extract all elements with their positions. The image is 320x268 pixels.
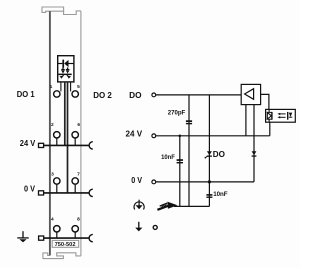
24V rail on module [39, 142, 93, 149]
svg-text:10nF: 10nF [161, 154, 175, 161]
terminal 24V [152, 134, 156, 138]
LED arrows [61, 75, 63, 77]
capacitor 10nF upper [177, 159, 183, 163]
LED DO [207, 151, 212, 157]
top latch bar [42, 7, 64, 12]
svg-text:750-502: 750-502 [55, 242, 76, 248]
branch DO to earth with 270pF [188, 95, 190, 206]
svg-text:24 V: 24 V [20, 139, 36, 148]
thick wire to 0V rail [67, 82, 69, 193]
functional earth circle symbol [134, 200, 144, 210]
earth symbol left of module rail [17, 231, 28, 238]
contact 6 with stub [74, 138, 76, 145]
capacitor 10nF lower [206, 194, 212, 198]
earth rail on module [39, 234, 93, 241]
svg-text:8: 8 [77, 217, 80, 223]
opto light arrows [280, 114, 286, 117]
contact 3 with stub [56, 184, 58, 193]
opto pin to 24V rail [269, 122, 271, 136]
svg-text:10nF: 10nF [213, 191, 228, 198]
module outline group [42, 7, 81, 259]
driver pin via diode to 0V [253, 105, 255, 182]
earth line schematic [174, 205, 209, 207]
branch DO to earth with LED and 10nF [208, 95, 210, 206]
0V rail on module [39, 189, 93, 196]
terminal DO [152, 93, 156, 97]
svg-text:0 V: 0 V [24, 185, 36, 194]
down arrow symbol [138, 222, 140, 228]
contact 1 [54, 91, 60, 97]
svg-text:270pF: 270pF [168, 109, 186, 116]
svg-text:6: 6 [77, 122, 80, 128]
electronics LED box U1 [58, 56, 74, 82]
24V rail schematic [156, 135, 270, 137]
750-502 label box [52, 240, 78, 247]
rail-contact arrow symbol [157, 202, 177, 210]
svg-text:2: 2 [51, 122, 54, 128]
small open terminal circle [153, 225, 157, 229]
capacitor 270pF [186, 120, 192, 124]
0V rail schematic [156, 181, 254, 183]
contact 8 with stub [74, 232, 76, 238]
svg-text:0 V: 0 V [131, 176, 142, 185]
contact 5 [72, 91, 78, 97]
svg-text:5: 5 [77, 84, 80, 90]
diode D1 inside box [58, 60, 74, 68]
svg-text:DO: DO [213, 150, 225, 159]
bottom foot [43, 253, 81, 259]
svg-text:7: 7 [77, 172, 80, 178]
svg-text:1: 1 [50, 84, 53, 90]
left thick edge [49, 11, 51, 255]
svg-text:DO 1: DO 1 [17, 90, 35, 99]
wire box to contact 1 [60, 82, 62, 92]
DO rail [156, 94, 241, 96]
driver box U2 [241, 84, 260, 104]
triangle in driver box [245, 89, 254, 100]
svg-text:DO: DO [129, 91, 141, 100]
status LEDs inside box [59, 67, 72, 78]
svg-text:DO 2: DO 2 [93, 91, 112, 100]
opto internals [267, 109, 272, 122]
branch 24V to earth with 10nF [179, 136, 181, 207]
contact 4 with stub [56, 232, 58, 238]
junction dot 0V [208, 180, 211, 183]
diode D2 [252, 151, 257, 156]
opto output diode [287, 112, 289, 120]
contact 2 with stub [56, 138, 58, 145]
svg-text:4: 4 [51, 217, 54, 223]
wire box to contact 5 [70, 82, 72, 92]
driver pin to 24V [245, 105, 247, 136]
contact 7 with stub [74, 184, 76, 193]
top profile step [64, 11, 81, 15]
wire driver to optocoupler [261, 94, 269, 109]
svg-text:3: 3 [51, 172, 54, 178]
optocoupler box U3 [266, 109, 296, 122]
right edge [80, 11, 82, 256]
thick wire to 24V rail [64, 82, 66, 145]
svg-text:24 V: 24 V [126, 130, 143, 139]
terminal 0V [152, 180, 156, 184]
